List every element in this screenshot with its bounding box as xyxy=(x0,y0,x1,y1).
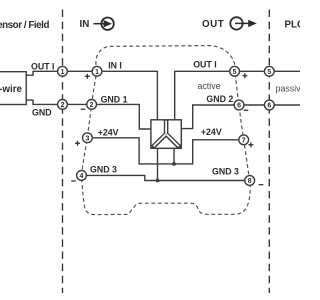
node polarity + at terminal 1 xyxy=(85,74,90,79)
svg-text:5: 5 xyxy=(267,69,271,76)
svg-text:IN I: IN I xyxy=(108,61,122,71)
wire sensor/field boundary dashed separator line xyxy=(62,10,64,294)
svg-text:GND 2: GND 2 xyxy=(206,94,233,104)
svg-text:+24V: +24V xyxy=(98,127,119,137)
wire GND 1 from device terminal 2 to isolator left side xyxy=(97,104,151,129)
node polarity - at terminal 2 xyxy=(81,108,86,110)
node polarity - at terminal 6 xyxy=(244,109,249,111)
node junction dot on +24V rail xyxy=(172,162,176,166)
wire GND 2 from device terminal 6 to isolator right side xyxy=(181,105,234,129)
wire sensor box to terminal 1 (OUT I) with jog xyxy=(26,71,58,75)
node polarity - at terminal 4 xyxy=(71,180,76,182)
svg-text:7: 7 xyxy=(242,137,246,144)
svg-text:6: 6 xyxy=(267,103,271,110)
node sensor-side terminal 2 xyxy=(58,100,68,110)
node junction dot on GND 3 bus xyxy=(156,179,160,183)
node device terminal 6 xyxy=(234,100,244,110)
node PLC-side terminal 5 xyxy=(264,66,274,76)
wire isolator bottom-right lead to +24V rail xyxy=(173,148,175,164)
svg-text:2: 2 xyxy=(61,102,65,109)
wire OUT I from device terminal 5 to isolator top-right xyxy=(175,71,230,120)
svg-text:Sensor / Field: Sensor / Field xyxy=(0,20,49,31)
svg-text:IN: IN xyxy=(80,19,90,30)
wire isolator bottom-left lead to GND 3 bus xyxy=(157,148,159,180)
svg-text:3: 3 xyxy=(85,135,89,142)
wire GND 3 bus from terminal 4 to terminal 8 with step xyxy=(86,175,244,180)
transducer 4-wire sensor box xyxy=(0,72,26,105)
svg-text:OUT I: OUT I xyxy=(193,60,216,70)
node polarity - at terminal 8 xyxy=(259,184,264,186)
svg-text:+24V: +24V xyxy=(201,127,222,137)
node polarity + at terminal 5 xyxy=(242,73,247,78)
svg-text:6: 6 xyxy=(237,103,241,110)
svg-text:2: 2 xyxy=(90,102,94,109)
node polarity + at terminal 3 xyxy=(75,141,80,146)
svg-text:1: 1 xyxy=(61,69,65,76)
node device terminal 4 xyxy=(77,171,87,181)
wire IN I from device terminal 1 to isolator top-left xyxy=(102,71,157,120)
wire PLC boundary dashed separator line xyxy=(268,10,270,294)
node device terminal 2 xyxy=(87,100,97,110)
op-amp U1 isolation amplifier box with Y divider xyxy=(151,120,181,149)
svg-text:4: 4 xyxy=(80,173,84,180)
svg-text:OUT: OUT xyxy=(202,19,224,30)
node device terminal 8 xyxy=(245,176,255,186)
node device terminal 3 xyxy=(83,133,93,143)
node PLC-side terminal 6 xyxy=(264,100,274,110)
svg-text:PLC: PLC xyxy=(285,20,301,31)
wire +24V rail joining terminal 3 and terminal 7 xyxy=(92,138,239,164)
svg-text:OUT I: OUT I xyxy=(31,61,54,71)
svg-text:5: 5 xyxy=(233,69,237,76)
svg-text:passive: passive xyxy=(276,84,300,94)
wire device dashed outline blob xyxy=(82,46,251,215)
svg-text:GND 3: GND 3 xyxy=(212,166,239,176)
svg-text:GND: GND xyxy=(32,108,52,118)
wire device terminal 5 to PLC terminal 5 and edge xyxy=(240,70,301,72)
node IN arrow-into-circle symbol xyxy=(94,18,114,30)
svg-text:active: active xyxy=(198,81,221,91)
wire sensor box to terminal 2 (GND) with jog xyxy=(26,100,58,104)
node device terminal 5 xyxy=(230,66,240,76)
node sensor-side terminal 1 xyxy=(58,66,68,76)
node device terminal 7 xyxy=(239,135,249,145)
wire device terminal 6 to PLC terminal 6 and edge xyxy=(244,104,300,106)
svg-text:1: 1 xyxy=(95,69,99,76)
svg-text:8: 8 xyxy=(248,178,252,185)
svg-text:4-wire: 4-wire xyxy=(0,84,23,95)
wire sensor terminal 1 to device terminal 1 xyxy=(67,70,92,72)
node device terminal 1 xyxy=(92,66,102,76)
node polarity + at terminal 7 xyxy=(248,142,253,147)
wire sensor terminal 2 to device terminal 2 xyxy=(67,103,86,105)
svg-text:GND 3: GND 3 xyxy=(90,164,117,174)
svg-text:GND 1: GND 1 xyxy=(101,95,128,105)
node OUT arrow-out-of-circle symbol xyxy=(230,17,256,29)
